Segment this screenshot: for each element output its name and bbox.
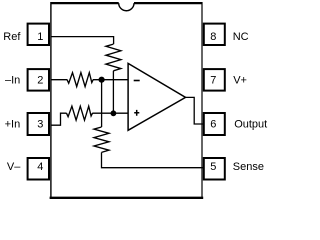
svg-text:+In: +In	[5, 119, 21, 131]
svg-text:3: 3	[37, 119, 43, 131]
svg-text:7: 7	[210, 74, 216, 86]
svg-text:4: 4	[37, 161, 43, 173]
svg-text:1: 1	[37, 31, 43, 43]
svg-text:V+: V+	[233, 74, 247, 86]
svg-text:V–: V–	[7, 161, 21, 173]
svg-text:5: 5	[210, 161, 216, 173]
svg-text:2: 2	[37, 74, 43, 86]
svg-text:–In: –In	[5, 74, 20, 86]
svg-text:Output: Output	[234, 119, 267, 131]
svg-text:Sense: Sense	[233, 161, 264, 173]
svg-text:NC: NC	[233, 31, 249, 43]
svg-text:6: 6	[210, 119, 216, 131]
svg-text:Ref: Ref	[3, 31, 21, 43]
svg-text:8: 8	[210, 31, 216, 43]
